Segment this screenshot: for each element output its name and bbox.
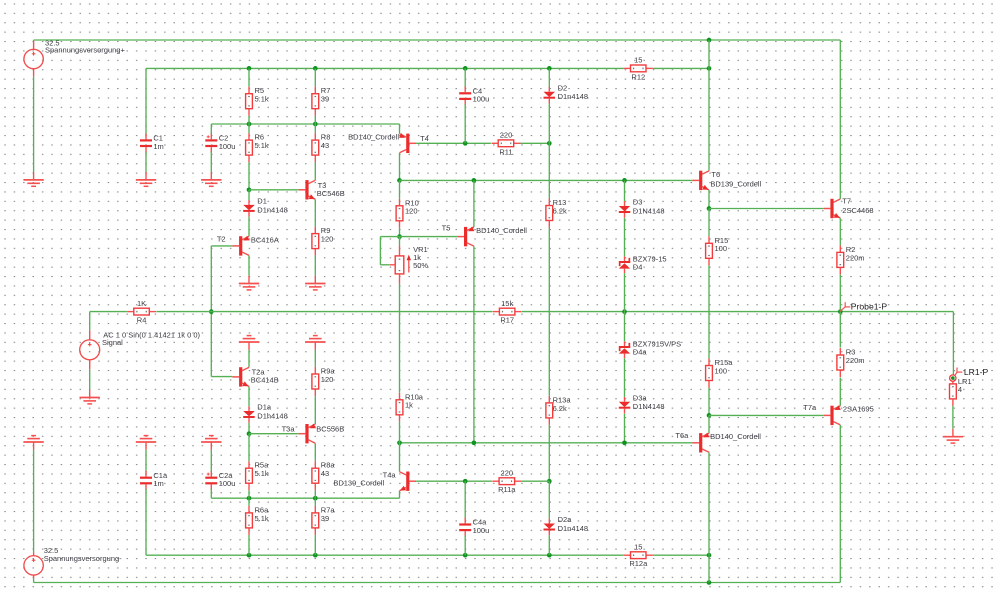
wire R9 to ground [314, 256, 316, 276]
wire -rail2 left of R12a [146, 554, 624, 556]
svg-text:100: 100 [715, 366, 728, 375]
wire D2a to -rail2 [548, 535, 550, 555]
svg-text:R11: R11 [499, 147, 512, 156]
wire node to R7a [314, 498, 316, 506]
node rail2-R7 [313, 66, 318, 71]
probe Probe1-P [840, 301, 887, 311]
svg-text:1m: 1m [153, 142, 163, 151]
node T6 emitter-T7 base [707, 206, 712, 211]
wire T4a emitter down [399, 491, 401, 498]
wire node to D2a [548, 481, 550, 519]
wire T3a base [249, 433, 299, 435]
wire R4 to R17 [156, 311, 492, 313]
svg-text:D1n4148: D1n4148 [558, 524, 588, 533]
node R10a-T4a-rail [397, 440, 402, 445]
resistor R7 (39) [312, 86, 330, 116]
node R11-D2-R13 [547, 141, 552, 146]
wire node to R6a [248, 498, 250, 506]
wire input base vertical [210, 246, 212, 377]
node D3a-rail [622, 440, 627, 445]
zener D4a (BZX7915V/PS) [619, 339, 681, 358]
wire rail2 node to T6 collector [708, 68, 710, 170]
svg-text:6.2k: 6.2k [553, 404, 567, 413]
svg-text:D2: D2 [558, 83, 568, 92]
node T4-R10-rail [397, 178, 402, 183]
svg-text:1m: 1m [153, 479, 163, 488]
wire D2 to R11 node [548, 104, 550, 144]
resistor R15 (100) [706, 236, 729, 265]
svg-text:BD139_Cordell: BD139_Cordell [333, 479, 384, 488]
resistor R6 (5.1k) [246, 133, 269, 163]
signal source (AC) [80, 330, 201, 369]
capacitor C1 (1m) [140, 134, 164, 153]
wire T2 base stub [211, 245, 232, 247]
diode D1a (D1h4148) [243, 403, 288, 423]
wire R8 to T3 collector [314, 162, 316, 180]
capacitor C2 (100u) [205, 134, 235, 153]
svg-text:100u: 100u [473, 526, 490, 535]
svg-text:4: 4 [958, 385, 962, 394]
wire VR1 top stub [399, 237, 401, 256]
transistor T4 BD140_Cordell [348, 132, 429, 153]
wire T4 emitter up [399, 124, 401, 134]
resistor R5a (5.1k) [246, 461, 269, 491]
resistor R11a (220) [492, 468, 521, 494]
node input bases - R4 [209, 309, 214, 314]
wire T5 base line [400, 236, 458, 238]
svg-text:BC556B: BC556B [316, 424, 344, 433]
svg-text:2SA1695: 2SA1695 [843, 404, 874, 413]
wire node to R15 [708, 209, 710, 237]
ground at C2 [201, 172, 221, 186]
wire mid rail to T6 base [400, 179, 693, 181]
svg-text:43: 43 [321, 469, 329, 478]
svg-text:D2a: D2a [558, 515, 573, 524]
wire C1 to ground [145, 152, 147, 172]
node R8a-R7a tap [313, 496, 318, 501]
svg-text:D3: D3 [633, 198, 643, 207]
ground at C1 [136, 172, 156, 186]
svg-text:Spannungsversorgung+: Spannungsversorgung+ [45, 46, 125, 55]
resistor R3 (220m) [837, 348, 865, 378]
capacitor C2a (100u) [205, 471, 235, 490]
node T6a emitter-T7a base [707, 413, 712, 418]
node T5 collector-rail [472, 440, 477, 445]
wire rail2 to C4 [464, 68, 466, 88]
transistor T3a BC556B [282, 424, 345, 444]
wire D4 to output node [624, 273, 626, 311]
wire R15a to node [708, 388, 710, 416]
svg-text:T4a: T4a [383, 471, 397, 480]
resistor R12 (15) [624, 56, 653, 82]
resistor R9a (120) [312, 367, 335, 397]
wire signal to R4 corner [89, 312, 91, 331]
wire R2 to output node [839, 274, 841, 311]
wire T2 collector to ground [248, 256, 250, 276]
node rail2b-R7a [313, 553, 318, 558]
svg-text:1k: 1k [405, 401, 413, 410]
wire T2a base stub [211, 376, 232, 378]
svg-text:15: 15 [634, 542, 642, 551]
svg-text:T3a: T3a [282, 424, 296, 433]
node D3 top-rail [622, 178, 627, 183]
wire top rail to T7 collector [839, 40, 841, 199]
wire R13 to R13a [548, 228, 550, 396]
wire D3a to bottom rail node [624, 414, 626, 443]
resistor R4 (1K) [127, 299, 156, 325]
wire T4a base node to C4a [464, 481, 466, 519]
svg-text:BD140_Cordell: BD140_Cordell [348, 132, 399, 141]
svg-text:T6a: T6a [675, 431, 689, 440]
svg-text:LR1-P: LR1-P [964, 367, 989, 377]
svg-text:120: 120 [321, 375, 334, 384]
wire C2 to ground [210, 152, 212, 172]
svg-text:100u: 100u [219, 142, 236, 151]
node top rail / T6 column [707, 38, 712, 43]
resistor R10a (1k) [396, 392, 424, 422]
svg-text:220m: 220m [846, 356, 865, 365]
resistor R15a (100) [706, 358, 734, 388]
wire R8a to node [314, 490, 316, 498]
wire R11 to D2 column [521, 142, 550, 144]
wire ground to R9a [314, 350, 316, 367]
wire T4 base line [416, 142, 491, 144]
svg-text:120: 120 [405, 207, 418, 216]
wire rail2 to D2 [548, 68, 550, 88]
svg-text:39: 39 [321, 514, 329, 523]
wire R10a to node [399, 422, 401, 443]
ground above R9a [305, 336, 325, 350]
transistor T7a 2SA1695 [803, 403, 874, 425]
wire D1a to node [248, 423, 250, 434]
wire output node to D4a [624, 312, 626, 342]
svg-text:220m: 220m [846, 253, 865, 262]
capacitor C4a (100u) [459, 518, 489, 537]
transistor T6a BD140_Cordell [675, 431, 761, 453]
svg-text:Signal: Signal [102, 338, 123, 347]
wire R5a to node [248, 490, 250, 498]
wire T6 emitter to node [708, 190, 710, 209]
wire R9a to T3a emitter [314, 396, 316, 424]
svg-text:5.1k: 5.1k [255, 469, 269, 478]
resistor R2 (220m) [837, 245, 865, 275]
svg-text:R11a: R11a [498, 485, 516, 494]
wire C4 to T4 base line [464, 104, 466, 143]
svg-text:BC416A: BC416A [251, 235, 279, 244]
wire node to R6 [248, 124, 250, 133]
wire R7a to -rail2 [314, 535, 316, 555]
probe LR1-P [950, 367, 989, 381]
wire node to T4a collector [399, 443, 401, 472]
node R10-VR1-T5 base [397, 234, 402, 239]
capacitor C4 (100u) [459, 86, 489, 105]
ground above V- [23, 436, 43, 450]
svg-text:D1N4148: D1N4148 [633, 402, 665, 411]
resistor LR1 (4) [950, 377, 972, 406]
wire rail to R10 [399, 180, 401, 198]
diode D1 (D1n4148) [243, 197, 288, 217]
svg-text:BD140_Cordell: BD140_Cordell [476, 226, 527, 235]
wire -rail2 right of R12a [653, 554, 709, 556]
svg-text:R12: R12 [631, 72, 645, 81]
potentiometer VR1 (1k 50%) [390, 245, 429, 284]
wire to R4 [90, 311, 127, 313]
svg-text:T2: T2 [217, 234, 226, 243]
wire C4a to -rail2 [464, 536, 466, 556]
wire node line y124 [211, 123, 399, 125]
svg-text:D4: D4 [633, 263, 643, 272]
wire V- bottom to rail [33, 578, 35, 583]
wire R7 to node [314, 116, 316, 124]
wire node to D1 [248, 190, 250, 200]
svg-text:Spannungsversorgung-: Spannungsversorgung- [44, 554, 122, 563]
wire T3 emitter to R9 [314, 199, 316, 226]
ground at T2 [239, 276, 259, 290]
wire T6a collector down [708, 452, 710, 555]
wire ground to V- top [33, 450, 35, 553]
resistor R11 (220) [492, 131, 521, 157]
svg-text:50%: 50% [413, 261, 428, 270]
svg-text:T7: T7 [842, 197, 851, 206]
wire ground to C1a [145, 450, 147, 472]
wire LR1 to ground [952, 406, 954, 429]
node rail2b-D2a [547, 553, 552, 558]
wire T7a collector to bottom rail [839, 425, 841, 583]
node D1a-T3a base [247, 431, 252, 436]
diode D3a (D1N4148) [619, 393, 665, 413]
svg-text:T4: T4 [420, 134, 429, 143]
voltage source Spannungsversorgung+ (32.5 V) [24, 38, 126, 76]
ground above T2a [239, 336, 259, 350]
node C4-T4 base [463, 141, 468, 146]
svg-text:5.1k: 5.1k [255, 95, 269, 104]
node T5 emitter-rail [472, 178, 477, 183]
wire T2a emitter to D1a [248, 387, 250, 407]
wire D3 to D4 [624, 218, 626, 256]
resistor R5 (5.1k) [246, 86, 269, 116]
wire C2 node line [210, 124, 212, 135]
svg-text:100: 100 [715, 244, 728, 253]
ground at V+ [23, 172, 43, 186]
svg-text:5.1k: 5.1k [255, 514, 269, 523]
wire R5 to node [248, 116, 250, 124]
svg-text:T7a: T7a [803, 403, 817, 412]
svg-text:D1N4148: D1N4148 [633, 206, 665, 215]
svg-text:Probe1-P: Probe1-P [851, 301, 888, 311]
svg-text:BC414B: BC414B [251, 375, 279, 384]
resistor R13 (6.2k) [546, 198, 567, 228]
node diode chain - output [622, 309, 627, 314]
node rail2b-T6a [707, 553, 712, 558]
svg-text:220: 220 [501, 468, 514, 477]
svg-text:D4a: D4a [633, 348, 648, 357]
wire R6 to D1 node [248, 162, 250, 190]
zener D4 (BZX79-15) [619, 254, 667, 273]
resistor R9 (120) [312, 226, 333, 256]
capacitor C1a (1m) [140, 471, 168, 490]
node R7-R8 tap [313, 122, 318, 127]
node output probe [838, 309, 843, 314]
transistor T7 2SC4468 [824, 197, 874, 219]
wire R10 to VR1 node [399, 228, 401, 237]
wire T3a collector to R8a [314, 443, 316, 461]
wire node to R13 [548, 143, 550, 198]
svg-text:120: 120 [321, 235, 334, 244]
svg-text:BC546B: BC546B [317, 189, 345, 198]
wire T6a base from mid rail [400, 442, 693, 444]
transistor T2 BC416A [217, 234, 279, 255]
wire R17 to output [522, 311, 953, 313]
wire D4a to D3a [624, 358, 626, 397]
wire T4 collector down [399, 153, 401, 181]
wire T5 emitter up [473, 180, 475, 227]
wire ground to C2a [210, 450, 212, 472]
wire VR1 wiper wrap [380, 237, 389, 265]
node rail2-D2 [547, 66, 552, 71]
svg-text:BD140_Cordell: BD140_Cordell [710, 432, 761, 441]
ground above C1a [136, 436, 156, 450]
wire T4a base line [416, 480, 492, 482]
svg-text:43: 43 [321, 141, 329, 150]
node C4a-T4a base [463, 479, 468, 484]
node R5-R6-C2 [247, 122, 252, 127]
wire top +rail [34, 39, 841, 41]
svg-text:15: 15 [634, 56, 642, 65]
voltage source Spannungsversorgung- (32.5 V) [24, 546, 122, 578]
wire node to T6a emitter [708, 415, 710, 433]
wire R11a to node [521, 480, 549, 482]
wire T7 emitter to R2 [839, 218, 841, 245]
wire T5 collector down [473, 246, 475, 443]
wire +rail2 left of R12 [146, 67, 624, 69]
svg-text:100u: 100u [219, 479, 236, 488]
svg-text:BD139_Cordell: BD139_Cordell [710, 179, 761, 188]
node rail2-R5 [247, 66, 252, 71]
node R5a-R6a-C2a [247, 496, 252, 501]
wire rail2 down to C1 [145, 68, 147, 134]
svg-text:T6: T6 [711, 170, 720, 179]
svg-text:R12a: R12a [629, 559, 648, 568]
wire ground to T2a collector [248, 350, 250, 367]
svg-text:D3a: D3a [633, 393, 648, 402]
wire bottom -rail [34, 582, 841, 584]
transistor T6 BD139_Cordell [692, 170, 761, 190]
node R11a-R13a-D2a [547, 479, 552, 484]
svg-text:39: 39 [321, 95, 329, 104]
resistor R6a (5.1k) [246, 505, 269, 535]
wire node to R8 [314, 124, 316, 133]
svg-text:2SC4468: 2SC4468 [842, 206, 873, 215]
node rail2b-R6a [247, 553, 252, 558]
diode D2a (D1n4148) [544, 515, 589, 535]
svg-text:15k: 15k [501, 299, 513, 308]
node rail2-R12 [707, 66, 712, 71]
svg-text:D1: D1 [257, 197, 267, 206]
svg-text:5.1k: 5.1k [255, 141, 269, 150]
svg-text:D1n4148: D1n4148 [558, 92, 588, 101]
diode D2 (D1n4148) [544, 83, 589, 103]
wire VR1 wrap top [380, 236, 399, 238]
transistor T2a BC414B [232, 367, 278, 386]
wire output to LR1 column [952, 312, 954, 375]
wire node to R5a [248, 434, 250, 462]
transistor T5 BD140_Cordell [442, 224, 528, 247]
ground above C2a [201, 436, 221, 450]
wire R3 to T7a emitter [839, 378, 841, 406]
svg-text:R4: R4 [137, 316, 147, 325]
wire node line y498 [211, 497, 399, 499]
wire T6a column to bottom rail [708, 555, 710, 582]
wire V+ to ground [33, 76, 35, 172]
ground at LR1 [943, 429, 963, 443]
svg-text:6.2k: 6.2k [553, 206, 567, 215]
wire R15 to R15a [708, 265, 710, 358]
ground at signal [80, 390, 100, 404]
wire R13a to R11a node [548, 425, 550, 481]
resistor R8a (43) [312, 461, 335, 491]
wire rail2 to R7 [314, 68, 316, 86]
transistor T4a BD139_Cordell [333, 471, 416, 491]
node rail2b-C4a [463, 553, 468, 558]
resistor R8 (43) [312, 133, 330, 163]
svg-text:T5: T5 [442, 224, 451, 233]
svg-text:D1h4148: D1h4148 [257, 411, 287, 420]
resistor R12a (15) [624, 542, 653, 568]
wire C2a down to node line [210, 489, 212, 498]
wire T7a base line [709, 414, 824, 416]
wire T7 base line [709, 208, 824, 210]
wire T3 base [249, 189, 299, 191]
node D1-T3 base [247, 187, 252, 192]
transistor T3 BC546B [299, 180, 345, 199]
wire VR1 bottom to R10a [399, 284, 401, 393]
wire top rail down to rail2 node [708, 40, 710, 68]
svg-text:R17: R17 [500, 316, 514, 325]
svg-text:D1a: D1a [257, 403, 272, 412]
resistor R13a (6.2k) [546, 395, 571, 425]
wire signal to ground [89, 369, 91, 389]
diode D3 (D1N4148) [619, 198, 665, 218]
node bottom rail / T6 column [707, 580, 712, 585]
wire rail to D3 [624, 180, 626, 201]
wire R6a to -rail2 [248, 535, 250, 555]
resistor R10 (120) [396, 198, 419, 228]
svg-text:1K: 1K [137, 299, 146, 308]
wire C1a to -rail2 [145, 489, 147, 555]
wire output node to R3 [839, 312, 841, 348]
wire +rail2 right of R12 [653, 67, 709, 69]
wire D1 to T2 emitter [248, 217, 250, 237]
node rail2-C4 [463, 66, 468, 71]
wire rail2 to R5 [248, 68, 250, 86]
resistor R7a (39) [312, 505, 335, 535]
svg-text:D1n4148: D1n4148 [257, 205, 287, 214]
resistor R17 (15k) [493, 299, 522, 325]
svg-text:220: 220 [500, 131, 513, 140]
svg-text:100u: 100u [473, 95, 490, 104]
ground at R9 [305, 276, 325, 290]
